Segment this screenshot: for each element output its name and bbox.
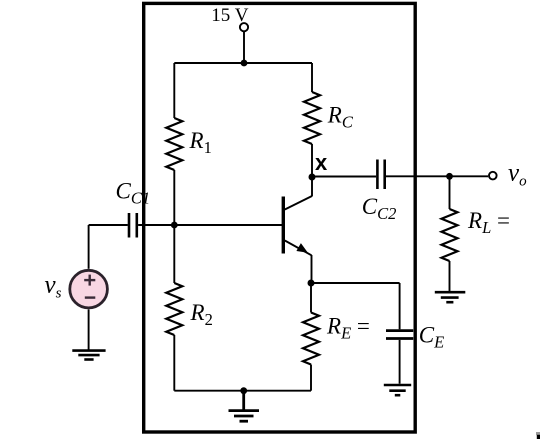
wire vs to ground: [88, 309, 90, 349]
wire emitter node to CE branch: [311, 282, 400, 284]
wire input left segment to CC1: [89, 224, 128, 226]
amplifier box border frame: [144, 3, 416, 432]
node emitter junction: [308, 280, 315, 287]
ground under vs: [72, 351, 105, 360]
transistor Q1 emitter diagonal with arrow: [285, 241, 312, 256]
supply terminal (open circle): [240, 23, 248, 31]
transistor Q1 collector diagonal: [285, 196, 312, 210]
resistor RL: [442, 209, 458, 261]
ground under CE: [384, 385, 411, 395]
wire supply stem: [243, 32, 245, 63]
wire CE to ground: [399, 340, 401, 384]
resistor R1: [166, 118, 182, 170]
corner artifact mark: [536, 432, 540, 435]
source vs minus sign: [85, 296, 96, 298]
resistor R2: [166, 283, 182, 335]
source vs circle: [70, 270, 108, 308]
wire emitter down to node: [311, 255, 313, 283]
node X junction: [309, 174, 316, 181]
wire CC2 to output terminal: [386, 175, 488, 177]
wire CC1 to base: [138, 224, 282, 226]
node base junction: [171, 222, 178, 229]
wire right rail to RC: [311, 63, 313, 92]
capacitor CE: [386, 331, 413, 339]
wire node X to CC2: [312, 176, 376, 178]
output terminal vo (open circle): [489, 172, 497, 180]
node supply junction: [241, 60, 248, 67]
wire vs stem up: [88, 225, 90, 269]
node output junction: [446, 173, 453, 180]
wire RC bottom through node X down to collector: [311, 144, 313, 196]
wire left rail to R1: [173, 63, 175, 118]
capacitor CC1: [129, 213, 137, 238]
resistor RE: [303, 313, 319, 365]
wire RL to ground: [449, 261, 451, 292]
ground under RL: [435, 292, 466, 302]
wire top rail: [174, 62, 312, 64]
resistor RC: [304, 92, 320, 144]
wire RE bottom to bottom rail: [310, 365, 312, 391]
node bottom junction: [240, 387, 247, 394]
wire output node to RL: [449, 176, 451, 209]
wire R2 bottom to bottom rail: [173, 335, 175, 391]
svg-text:x: x: [315, 150, 328, 175]
source vs plus sign: [84, 275, 95, 286]
wire emitter node to RE: [310, 283, 312, 313]
transistor Q1 base bar: [282, 197, 285, 254]
wire R1 bottom to base junction to R2: [173, 170, 175, 283]
capacitor CC2: [377, 160, 384, 190]
ground bottom center: [229, 391, 260, 422]
wire bottom rail: [174, 390, 311, 392]
